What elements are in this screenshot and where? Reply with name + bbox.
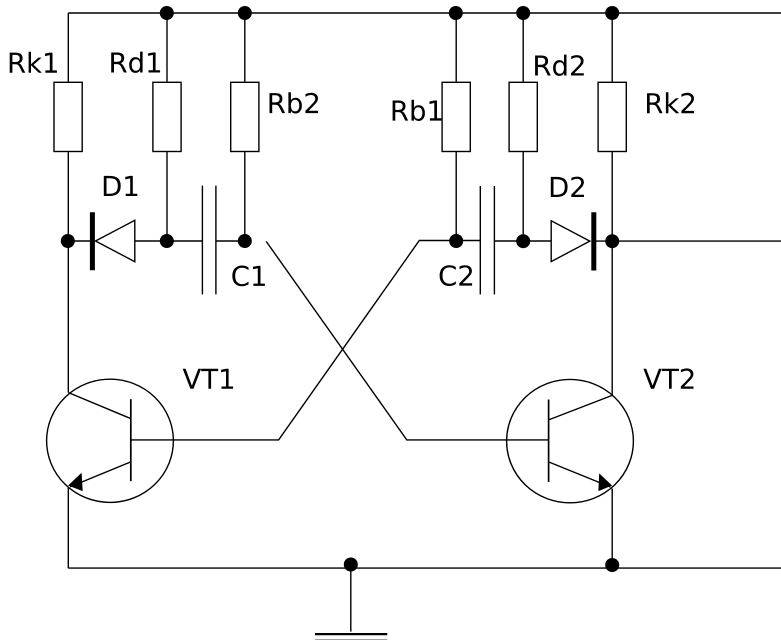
capacitor C2 left plate [479, 186, 481, 294]
capacitor C2 right plate [493, 186, 495, 294]
wire VT2 emitter to bottom rail [611, 489, 613, 566]
capacitor C1 right plate [215, 186, 217, 295]
label Rk2 [647, 92, 694, 113]
junction node Rb2 / C1 [238, 234, 252, 248]
wire Rd2 top stub [522, 13, 524, 82]
wire bottom ground rail [68, 567, 781, 569]
wire Rk2 top stub [611, 13, 613, 82]
label Rb1 [393, 100, 442, 121]
wire D2 cathode to node D and right output [594, 240, 781, 242]
transistor VT1 emitter arrow [68, 473, 83, 491]
diode D2 cathode bar [591, 212, 596, 270]
resistor Rb2 [231, 82, 259, 151]
junction node top rail / Rb1 [449, 6, 463, 20]
wire node A to D1 anode [68, 240, 92, 242]
junction node top rail / Rk2 [605, 6, 619, 20]
resistor Rd2 [509, 82, 537, 151]
label C1 [232, 266, 265, 287]
junction node VT2 emitter on bottom rail [605, 558, 619, 572]
resistor Rk1 [54, 82, 82, 151]
transistor VT1 emitter diagonal [70, 462, 131, 487]
transistor VT2 collector diagonal [549, 395, 613, 420]
resistor Rk2 [598, 82, 626, 151]
transistor VT2 emitter diagonal [549, 462, 611, 487]
junction node Rd1 / D1 cathode [160, 234, 174, 248]
capacitor C1 left plate [201, 186, 203, 295]
label Rd1 [111, 52, 160, 73]
wire Rd1 top stub [166, 13, 168, 82]
wire VT1 base to cross-coupling to node C [131, 241, 481, 440]
transistor VT1 circle [47, 379, 174, 502]
junction node Rb1 / C2 [449, 234, 463, 248]
wire Rd1 bottom stub [166, 152, 168, 242]
diode D2 triangle [551, 221, 590, 262]
transistor VT2 circle [507, 379, 634, 502]
label VT1 [183, 369, 233, 389]
junction node top rail / Rb2 [238, 6, 252, 20]
wire top supply rail [68, 12, 781, 14]
wire ground stem [350, 565, 352, 632]
wire Rb2 bottom stub [244, 152, 246, 242]
label Rb2 [270, 92, 319, 113]
transistor VT1 collector diagonal [69, 393, 131, 419]
wire Rb2 top stub [244, 13, 246, 82]
diode D1 triangle [96, 220, 135, 261]
label C2 [440, 265, 473, 286]
junction node Rd2 / C2 [516, 234, 530, 248]
transistor VT2 base bar [548, 400, 550, 483]
label D2 [551, 177, 584, 197]
wire C2 right plate to Rd2 node [494, 240, 551, 242]
resistor Rb1 [442, 82, 470, 151]
label VT2 [643, 368, 693, 388]
wire VT1 emitter to bottom rail [67, 487, 69, 568]
wire D1 to C1 left plate [135, 240, 203, 242]
wire C1 right plate to node B [216, 240, 245, 242]
label Rk1 [10, 52, 57, 73]
wire Rk2 bottom stub / VT2 collector feed [611, 152, 613, 396]
wire left rail (Rk1 to node A to VT1 collector) [67, 152, 69, 393]
label Rd2 [535, 55, 584, 76]
wire cross-coupling from node B to VT2 base [266, 241, 548, 440]
resistor Rd1 [153, 82, 181, 151]
diode D1 cathode bar [90, 212, 95, 270]
junction node top rail / Rd1 [160, 6, 174, 20]
wire Rb1 top stub [455, 13, 457, 82]
junction node Rk2 / D2 / VT2 collector [605, 234, 619, 248]
ground bar 1 [315, 633, 387, 635]
wire Rb1 bottom stub [455, 152, 457, 242]
transistor VT2 emitter arrow [598, 473, 612, 491]
junction node ground on bottom rail [344, 558, 358, 572]
label D1 [104, 176, 138, 196]
wire Rd2 bottom stub [522, 152, 524, 242]
junction node top rail / Rd2 [516, 6, 530, 20]
wire left rail top (to Rk1) [67, 13, 69, 82]
junction node D1 anode on left rail [61, 234, 75, 248]
transistor VT1 base bar [130, 399, 132, 481]
